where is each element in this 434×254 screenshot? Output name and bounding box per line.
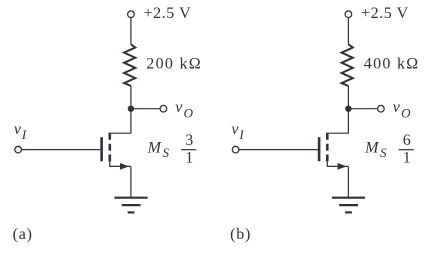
wire node-to-output terminal (b) (348, 108, 377, 110)
wire supply-to-resistor (b) (347, 17, 349, 44)
supply terminal VDD (b) (345, 11, 352, 18)
output terminal (b) (378, 105, 385, 112)
svg-text:(b): (b) (230, 226, 251, 243)
svg-text:6: 6 (403, 132, 411, 149)
ground symbol (a) (114, 198, 147, 213)
input terminal (b) (232, 146, 239, 153)
transistor MS source lead (b) (327, 161, 348, 167)
wire source-to-ground (a) (130, 166, 132, 197)
svg-text:M: M (364, 140, 380, 157)
svg-text:M: M (147, 140, 163, 157)
supply terminal VDD (a) (128, 11, 135, 18)
transistor MS source arrow (b) (338, 163, 347, 170)
wire supply-to-resistor (a) (130, 17, 132, 44)
gate wire from input (b) (239, 149, 318, 151)
label vO (b) (393, 99, 411, 121)
transistor MS source lead (a) (110, 161, 131, 167)
svg-text:+2.5 V: +2.5 V (144, 5, 192, 22)
wire resistor-to-drain (b) (326, 86, 348, 133)
wire resistor-to-drain (a) (109, 86, 131, 133)
node vO junction dot (a) (128, 106, 134, 112)
svg-text:400 kΩ: 400 kΩ (364, 55, 420, 72)
transistor MS gate bar (b) (318, 137, 321, 161)
svg-text:200 kΩ: 200 kΩ (146, 55, 202, 72)
input terminal (a) (15, 146, 22, 153)
ground symbol (b) (332, 198, 365, 213)
svg-text:1: 1 (185, 150, 193, 167)
ratio fraction bar (b) (399, 149, 414, 151)
svg-text:v: v (393, 99, 401, 116)
svg-text:I: I (238, 127, 244, 142)
resistor R 400k (b) (342, 44, 353, 86)
svg-text:v: v (175, 99, 183, 116)
svg-text:S: S (380, 145, 387, 160)
svg-text:+2.5 V: +2.5 V (361, 5, 409, 22)
svg-text:I: I (21, 127, 27, 142)
label vI (b) (231, 121, 244, 142)
ratio fraction bar (a) (181, 149, 196, 151)
svg-text:v: v (231, 121, 239, 138)
gate wire from input (a) (21, 149, 100, 151)
label MS (b) (364, 140, 387, 160)
svg-text:S: S (163, 145, 170, 160)
node vO junction dot (b) (345, 106, 351, 112)
transistor MS channel dashed bar (b) (326, 133, 329, 162)
wire node-to-output terminal (a) (131, 108, 160, 110)
svg-text:(a): (a) (13, 226, 33, 243)
svg-text:3: 3 (185, 132, 193, 149)
resistor R 200k (a) (124, 44, 135, 86)
transistor MS channel dashed bar (a) (109, 133, 112, 162)
svg-text:1: 1 (403, 150, 411, 167)
svg-text:O: O (184, 105, 194, 120)
output terminal (a) (160, 105, 167, 112)
svg-text:v: v (14, 121, 22, 138)
wire source-to-ground (b) (347, 166, 349, 197)
transistor MS source arrow (a) (120, 163, 129, 170)
label vI (a) (14, 121, 27, 142)
svg-text:O: O (401, 105, 411, 120)
label MS (a) (147, 140, 170, 160)
label vO (a) (175, 99, 193, 121)
transistor MS gate bar (a) (100, 137, 103, 161)
